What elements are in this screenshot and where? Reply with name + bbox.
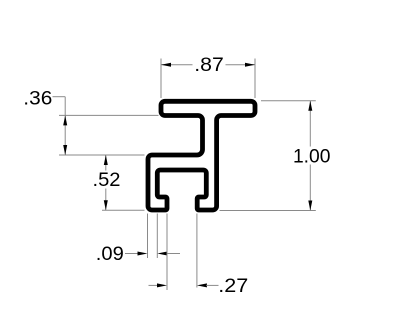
node .87 arrow left xyxy=(161,63,171,67)
node .87 dimension line left segment xyxy=(161,64,193,66)
node .52 dimension line lower segment xyxy=(105,189,107,211)
svg-text:.52: .52 xyxy=(93,169,121,191)
node .27 extension line right xyxy=(196,214,198,288)
node .09 arrow left outside xyxy=(138,252,148,256)
node .36 leader line xyxy=(53,96,66,98)
node .09 leader line from label xyxy=(125,253,139,255)
node 1.00 extension line bottom xyxy=(220,210,316,212)
node .27 arrow left tail xyxy=(149,284,158,286)
node .52 extension line bottom xyxy=(102,209,145,211)
node .36/.52 shared extension line at arm top xyxy=(59,154,145,156)
node .27 extension line left xyxy=(166,214,168,291)
svg-text:.09: .09 xyxy=(96,243,124,265)
wire: extrusion profile outline xyxy=(148,101,255,210)
node .87 dimension line right segment xyxy=(226,64,256,66)
node .09 arrow right outside xyxy=(157,252,167,256)
node .27 arrow left outside xyxy=(157,283,167,287)
svg-text:.87: .87 xyxy=(194,54,224,76)
node .27 arrow right outside xyxy=(197,283,207,287)
node .52 arrow down xyxy=(104,200,108,210)
svg-text:1.00: 1.00 xyxy=(293,146,331,168)
node .87 dimension extension line right xyxy=(254,59,256,99)
svg-text:.36: .36 xyxy=(23,88,52,110)
node .09 arrow right tail xyxy=(167,253,181,255)
node .36 extension line at bar underside xyxy=(59,114,159,116)
svg-text:.27: .27 xyxy=(218,275,248,297)
node .27 arrow right tail xyxy=(206,284,218,286)
node .52 dimension line upper segment xyxy=(105,155,107,171)
node .09 extension line right xyxy=(156,214,158,259)
node .36 arrow up xyxy=(63,115,67,125)
node 1.00 dimension line lower segment xyxy=(309,165,311,211)
node 1.00 arrow up xyxy=(308,101,312,111)
node .87 arrow right xyxy=(245,63,255,67)
node .36 dimension line xyxy=(64,97,66,155)
node .36 arrow down xyxy=(63,145,67,155)
node 1.00 extension line top xyxy=(261,100,316,102)
node 1.00 arrow down xyxy=(308,201,312,211)
node 1.00 dimension line upper segment xyxy=(309,101,311,147)
node .52 arrow up xyxy=(104,155,108,165)
node .09 extension line left xyxy=(147,214,149,259)
node .87 dimension extension line left xyxy=(160,59,162,99)
